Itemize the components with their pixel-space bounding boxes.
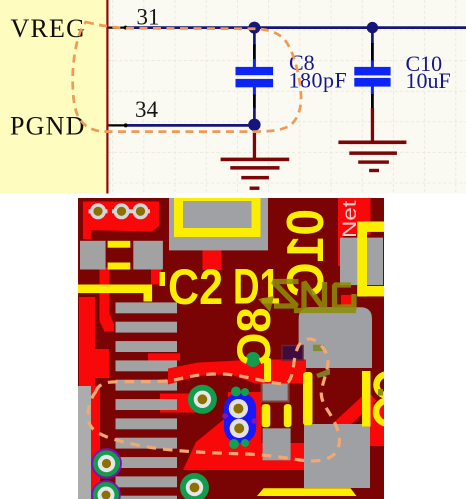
connector finger pads (116, 302, 178, 499)
left edge gray strip (78, 386, 91, 499)
svg-text:PGND: PGND (10, 111, 86, 140)
junction node at C10 top (367, 22, 378, 33)
red Net band top-right (338, 198, 371, 306)
blue via pair (222, 387, 257, 450)
silkscreen line left (78, 272, 165, 302)
wire VREG net (top horizontal) (128, 26, 466, 29)
pin 31 stub (109, 26, 128, 30)
green via B (180, 473, 209, 499)
red trace bar3 extension (148, 353, 180, 360)
component body U1 (yellow symbol area) (0, 0, 107, 194)
olive marks on pad (313, 345, 330, 378)
pad P2 bottom-right (304, 424, 370, 488)
green via A (188, 385, 217, 414)
small pad below yellow bars (263, 428, 291, 460)
svg-text:8C: 8C (227, 307, 280, 365)
silkscreen small bars (262, 358, 313, 427)
capacitor C8 (236, 27, 274, 125)
silkscreen box around top pad (179, 197, 257, 233)
capacitor C10 (354, 27, 390, 109)
green via D (bottom edge) (92, 481, 120, 499)
svg-text:C2: C2 (168, 259, 223, 315)
via cluster pad (top-left red) (83, 202, 159, 240)
red bottom region (183, 392, 308, 470)
net-name copper text (olive) (273, 282, 356, 311)
red stubs below SMD pads (100, 268, 162, 332)
red diagonal trace lower-right (307, 396, 372, 456)
right SMD pad upper (340, 238, 383, 286)
PCB layout screenshot (78, 197, 399, 499)
via cluster (3 vias) (89, 203, 151, 219)
svg-text:34: 34 (135, 97, 159, 122)
component border edge (106, 0, 108, 194)
red trace to green via (160, 394, 207, 413)
junction node at C8 bottom (248, 119, 260, 131)
svg-text:31: 31 (137, 4, 160, 29)
SMD pad pair left (80, 241, 163, 270)
silkscreen bars between pads (108, 241, 131, 270)
svg-text:Net: Net (340, 200, 361, 238)
svg-text:VREG: VREG (11, 14, 87, 43)
pin 34 stub (109, 123, 128, 127)
red diagonal band (over pad bottoms) (168, 360, 306, 385)
silkscreen bottom bar (257, 488, 357, 496)
red trace below top pad (203, 250, 222, 270)
wire PGND net (lower horizontal) (128, 124, 255, 127)
svg-text:D1: D1 (233, 258, 280, 314)
highlight loop (schematic selection) (73, 22, 301, 132)
ground symbol (C8) (221, 126, 290, 190)
tantalum cap pad C10 (rounded) (299, 307, 372, 368)
junction node at C8 top (248, 22, 260, 34)
silkscreen text 18 right edge (362, 371, 399, 427)
svg-text:10uF: 10uF (406, 68, 451, 93)
olive arrow head (258, 296, 274, 312)
green via C (purple ring) (92, 449, 121, 478)
red column bottom-left (79, 297, 109, 499)
purple component body (282, 346, 303, 361)
highlight loop (pcb selection) (88, 339, 340, 461)
big SMD pad top-middle (169, 198, 268, 251)
ground symbol (C10) (338, 108, 406, 172)
small pad above yellow bars (262, 380, 289, 402)
green via under C8 silk (246, 352, 261, 367)
silkscreen bracket right (357, 222, 384, 297)
